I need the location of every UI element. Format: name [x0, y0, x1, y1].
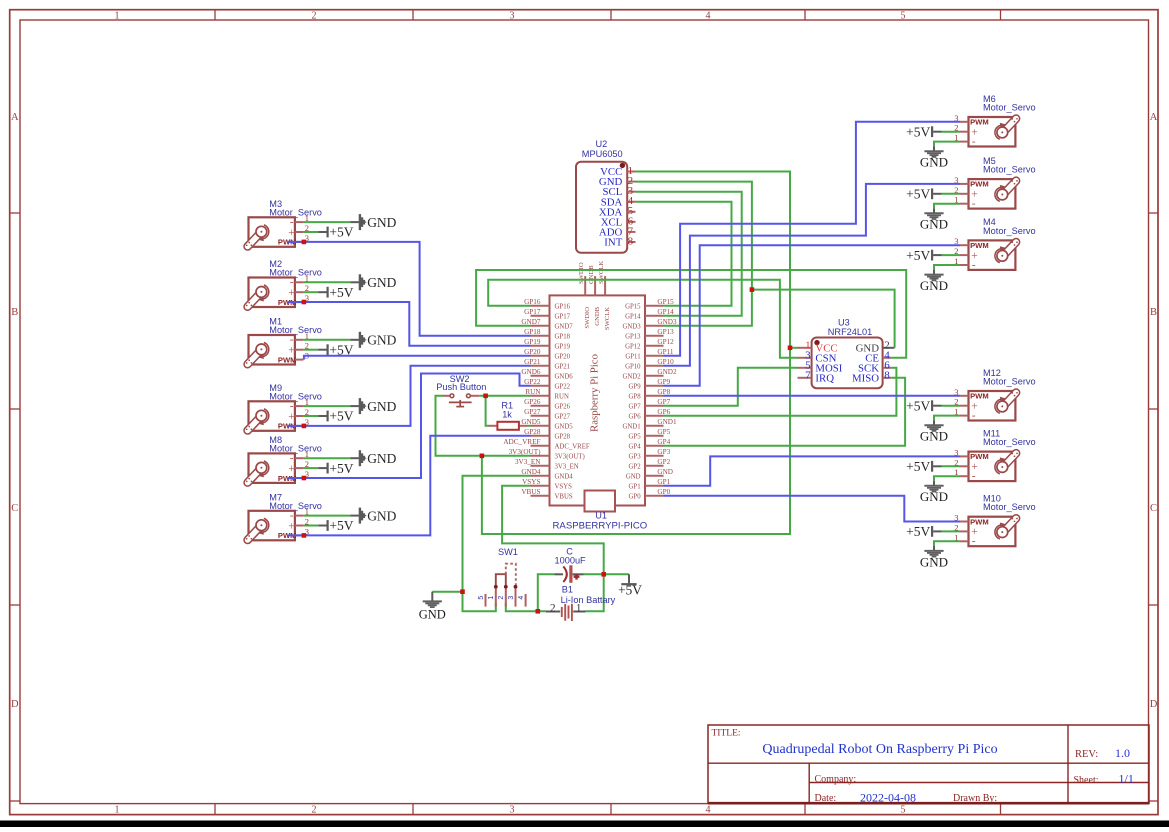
svg-text:TITLE:: TITLE:	[712, 729, 741, 739]
svg-text:GND: GND	[367, 508, 396, 523]
svg-text:+5V: +5V	[906, 248, 930, 263]
wire M8 pin1 to GND	[303, 457, 350, 459]
wire M10 PWM to GP0	[664, 496, 961, 522]
svg-text:VSYS: VSYS	[555, 484, 573, 491]
power +5V bottom	[618, 574, 642, 597]
svg-text:GND: GND	[920, 278, 948, 293]
svg-text:GND4: GND4	[555, 474, 574, 481]
svg-text:GND: GND	[419, 607, 446, 621]
wire M8 pin2 to +5V	[303, 467, 318, 469]
svg-text:Raspberry Pi Pico: Raspberry Pi Pico	[588, 354, 600, 432]
svg-text:GND: GND	[920, 429, 948, 444]
svg-text:2022-04-08: 2022-04-08	[860, 790, 916, 804]
svg-text:GP15: GP15	[625, 304, 641, 311]
svg-text:GP13: GP13	[657, 328, 674, 336]
wire M11 pin2 to +5V	[942, 465, 961, 467]
svg-text:GND: GND	[657, 468, 673, 476]
ground earth M4	[920, 270, 948, 293]
svg-text:2: 2	[312, 10, 317, 21]
svg-text:5: 5	[901, 10, 906, 21]
svg-text:Sheet:: Sheet:	[1074, 775, 1099, 786]
wire M3 PWM to GP18	[288, 242, 531, 336]
title block	[708, 725, 1149, 803]
wire SW2 to R1	[486, 396, 489, 426]
svg-text:-: -	[972, 410, 976, 422]
svg-text:ADC_VREF: ADC_VREF	[503, 438, 540, 446]
servo M12	[954, 387, 1018, 422]
svg-text:A: A	[11, 112, 19, 123]
wire M12 pin2 to +5V	[942, 405, 961, 407]
svg-text:Push Button: Push Button	[436, 382, 486, 392]
resistor R1 1k	[489, 422, 528, 430]
servo M10 label	[983, 494, 1036, 513]
svg-text:GP14: GP14	[625, 314, 641, 321]
svg-text:1: 1	[488, 596, 495, 600]
svg-text:1: 1	[115, 10, 120, 21]
svg-text:7: 7	[805, 370, 811, 382]
svg-text:PWM: PWM	[970, 452, 989, 461]
svg-text:A: A	[1150, 112, 1158, 123]
svg-text:PWM: PWM	[970, 241, 989, 250]
junction M8 pin3	[302, 476, 307, 481]
switch SW1 label	[498, 547, 518, 557]
wire M6 PWM to GP11	[664, 122, 961, 356]
servo M10	[954, 513, 1018, 548]
capacitor C 1000uF	[555, 565, 584, 583]
frame row labels	[11, 112, 1158, 710]
junction U3 VCC node	[788, 346, 793, 351]
svg-text:3: 3	[510, 804, 515, 815]
svg-text:GND: GND	[920, 554, 948, 569]
op-amp U1 RASPBERRYPI-PICO	[531, 276, 664, 511]
svg-text:GND6: GND6	[521, 368, 541, 376]
switch SW1	[478, 564, 526, 607]
svg-text:VBUS: VBUS	[521, 488, 540, 496]
svg-text:2: 2	[550, 602, 556, 614]
svg-text:PWM: PWM	[970, 392, 989, 401]
servo M8	[246, 449, 309, 483]
svg-text:VBUS: VBUS	[555, 494, 573, 501]
svg-text:GP26: GP26	[555, 404, 571, 411]
svg-text:+5V: +5V	[329, 409, 353, 424]
svg-text:GND: GND	[367, 215, 396, 230]
svg-text:GND: GND	[920, 155, 948, 170]
svg-text:GND7: GND7	[555, 324, 574, 331]
svg-text:Li-Ion Battary: Li-Ion Battary	[561, 595, 616, 605]
svg-text:GP17: GP17	[524, 308, 541, 316]
battery B1 Li-Ion	[546, 602, 586, 621]
svg-text:PWM: PWM	[970, 118, 989, 127]
svg-text:U1: U1	[595, 511, 607, 521]
svg-text:Date:: Date:	[815, 793, 837, 804]
servo M8 label	[269, 435, 322, 453]
svg-text:B1: B1	[562, 585, 573, 595]
svg-text:Motor_Servo: Motor_Servo	[983, 437, 1036, 447]
svg-text:1: 1	[576, 602, 582, 614]
svg-text:REV:: REV:	[1075, 749, 1098, 760]
svg-text:MISO: MISO	[852, 372, 879, 384]
svg-text:+5V: +5V	[906, 459, 930, 474]
svg-text:Motor_Servo: Motor_Servo	[983, 226, 1036, 236]
svg-text:GP16: GP16	[555, 304, 571, 311]
svg-text:GNDB: GNDB	[588, 265, 595, 284]
svg-text:Motor_Servo: Motor_Servo	[269, 501, 322, 511]
svg-text:-: -	[972, 536, 976, 548]
wire M7 pin1 to GND	[303, 515, 350, 517]
resistor R1 label	[501, 400, 513, 419]
wire capacitor to +5V junction	[584, 573, 604, 575]
svg-text:PWM: PWM	[278, 355, 297, 364]
junction battery minus node	[536, 609, 541, 614]
wire M6 pin2 to +5V	[942, 131, 961, 133]
servo M6 label	[983, 94, 1036, 113]
svg-text:GP7: GP7	[629, 404, 642, 411]
svg-text:Motor_Servo: Motor_Servo	[983, 502, 1036, 512]
op-amp U2 MPU6050 label	[582, 139, 623, 159]
svg-text:GP6: GP6	[629, 414, 642, 421]
bottom bar	[0, 821, 1169, 828]
ground earth M11	[920, 481, 948, 504]
servo M3	[246, 213, 309, 247]
ground GND flag M7	[350, 508, 396, 524]
power +5V M12	[906, 398, 941, 413]
servo M5	[954, 175, 1018, 210]
svg-text:1.0: 1.0	[1115, 746, 1130, 760]
power +5V M10	[906, 524, 941, 539]
op-amp U3 NRF24L01	[798, 338, 895, 389]
svg-text:PWM: PWM	[970, 517, 989, 526]
svg-text:Motor_Servo: Motor_Servo	[269, 268, 322, 278]
svg-text:GP0: GP0	[629, 494, 642, 501]
svg-text:ADC_VREF: ADC_VREF	[555, 444, 590, 451]
ground GND flag M9	[350, 398, 396, 414]
svg-text:GP17: GP17	[555, 314, 571, 321]
svg-text:5: 5	[901, 804, 906, 815]
wire GP6 to U3 SCK	[664, 368, 897, 416]
svg-text:GND: GND	[367, 399, 396, 414]
op-amp U3 NRF24L01 label	[828, 318, 872, 337]
power +5V M4	[906, 248, 941, 263]
svg-text:+5V: +5V	[906, 524, 930, 539]
ground GND flag M8	[350, 450, 396, 466]
servo M4	[954, 236, 1018, 271]
wire M2 pin2 to +5V	[303, 291, 318, 293]
servo M1 label	[269, 317, 322, 335]
wire M1 pin1 to GND	[303, 339, 350, 341]
ground earth M6	[920, 147, 948, 170]
svg-text:+5V: +5V	[906, 124, 930, 139]
svg-text:2: 2	[312, 804, 317, 815]
svg-text:-: -	[972, 198, 976, 210]
wire M4 pin1 to GND	[934, 265, 960, 270]
ground earth M10	[920, 546, 948, 569]
wire M5 pin2 to +5V	[942, 193, 961, 195]
capacitor C label	[555, 547, 587, 566]
servo M9	[246, 397, 309, 431]
ground earth M5	[920, 209, 948, 232]
op-amp U2 MPU6050	[576, 162, 636, 253]
svg-text:GP3: GP3	[657, 448, 670, 456]
svg-text:Motor_Servo: Motor_Servo	[983, 165, 1036, 175]
svg-text:3: 3	[508, 596, 515, 600]
svg-text:+5V: +5V	[329, 225, 353, 240]
svg-text:GP8: GP8	[629, 394, 642, 401]
power +5V M6	[906, 124, 941, 139]
svg-text:GND: GND	[367, 275, 396, 290]
wire M2 PWM to GP19	[288, 302, 531, 346]
wire M7 pin2 to +5V	[303, 525, 318, 527]
junction M3 pin3	[302, 240, 307, 245]
wire M9 PWM to GP21	[288, 366, 531, 426]
svg-text:GND2: GND2	[657, 368, 677, 376]
svg-text:GND1: GND1	[622, 424, 640, 431]
junction M9 pin3	[302, 424, 307, 429]
wire SW1 pin2 to battery minus	[506, 603, 546, 611]
wire M5 pin1 to GND	[934, 204, 960, 209]
svg-text:GND: GND	[920, 489, 948, 504]
svg-text:Motor_Servo: Motor_Servo	[269, 391, 322, 401]
svg-text:GP22: GP22	[555, 384, 571, 391]
wire M2 pin1 to GND	[303, 281, 350, 283]
servo M4 label	[983, 217, 1036, 236]
svg-text:3V3_EN: 3V3_EN	[555, 464, 579, 471]
svg-text:8: 8	[628, 235, 634, 247]
svg-text:Motor_Servo: Motor_Servo	[269, 325, 322, 335]
svg-text:GP21: GP21	[555, 364, 571, 371]
svg-text:1000uF: 1000uF	[555, 555, 587, 565]
svg-text:INT: INT	[604, 237, 622, 249]
power +5V M1	[318, 342, 354, 357]
svg-text:4: 4	[706, 10, 711, 21]
svg-text:C: C	[11, 503, 18, 514]
svg-text:GP5: GP5	[629, 434, 642, 441]
svg-text:GP12: GP12	[657, 338, 674, 346]
wire GP16 to U3 CSN	[488, 280, 797, 358]
wire M9 pin2 to +5V	[303, 415, 318, 417]
junction +5V node	[601, 572, 606, 577]
power +5V M3	[318, 225, 354, 240]
svg-text:Company:: Company:	[815, 774, 857, 785]
servo M1	[246, 331, 309, 365]
wire M6 pin1 to GND	[934, 142, 960, 147]
svg-text:GP20: GP20	[555, 354, 571, 361]
servo M11 label	[983, 428, 1036, 447]
svg-text:GP18: GP18	[555, 334, 571, 341]
svg-text:SWDIO: SWDIO	[584, 307, 591, 329]
svg-text:3V3(OUT): 3V3(OUT)	[555, 454, 585, 461]
svg-text:GP3: GP3	[629, 454, 642, 461]
svg-text:GP10: GP10	[625, 364, 641, 371]
junction GND node U2	[750, 287, 755, 292]
svg-text:-: -	[972, 471, 976, 483]
svg-text:SWCLK: SWCLK	[604, 307, 611, 330]
svg-text:+5V: +5V	[618, 583, 642, 598]
svg-text:Motor_Servo: Motor_Servo	[269, 443, 322, 453]
wire R1 to GND5	[527, 425, 531, 427]
wire U3 VCC link	[790, 347, 798, 349]
power +5V M5	[906, 187, 941, 202]
wire M1 pin2 to +5V	[303, 349, 318, 351]
svg-text:RUN: RUN	[555, 394, 569, 401]
svg-text:1k: 1k	[502, 410, 512, 420]
servo M6	[954, 113, 1018, 148]
junction GND node bottom	[460, 589, 465, 594]
wire SW2 to 3V3(OUT)	[436, 396, 531, 456]
wire VSYS to +5V net	[502, 486, 604, 612]
svg-text:GP19: GP19	[555, 344, 571, 351]
svg-text:GP11: GP11	[625, 354, 640, 361]
wire GND7 to U3 CE	[476, 270, 906, 358]
wire M12 pin1 to GND	[934, 416, 960, 421]
svg-text:5: 5	[478, 596, 485, 600]
servo M2 label	[269, 259, 322, 277]
svg-text:GP27: GP27	[555, 414, 571, 421]
svg-text:GP1: GP1	[629, 484, 641, 491]
wire M9 pin1 to GND	[303, 405, 350, 407]
svg-text:GND: GND	[920, 217, 948, 232]
svg-text:GP26: GP26	[524, 398, 541, 406]
wire M12 PWM to GP8	[664, 395, 961, 397]
svg-text:Motor_Servo: Motor_Servo	[983, 376, 1036, 386]
svg-text:4: 4	[706, 804, 711, 815]
wire U2 VCC to 3V3 net	[482, 172, 790, 535]
svg-text:D: D	[1150, 699, 1158, 710]
svg-text:3: 3	[510, 10, 515, 21]
net labels pico left	[503, 298, 541, 496]
wire M3 pin2 to +5V	[303, 231, 318, 233]
svg-text:GND6: GND6	[555, 374, 574, 381]
servo M11	[954, 447, 1018, 482]
svg-text:-: -	[972, 259, 976, 271]
svg-text:MPU6050: MPU6050	[582, 149, 623, 159]
switch SW2 label	[436, 374, 486, 392]
svg-text:GP2: GP2	[629, 464, 642, 471]
power +5V M2	[318, 285, 354, 300]
wire U2 SCL to GP14	[636, 192, 742, 316]
svg-text:1/1: 1/1	[1119, 772, 1134, 786]
svg-text:NRF24L01: NRF24L01	[828, 327, 872, 337]
servo M9 label	[269, 383, 322, 401]
svg-text:GP27: GP27	[524, 408, 541, 416]
svg-text:Motor_Servo: Motor_Servo	[269, 207, 322, 217]
svg-text:GNDB: GNDB	[594, 306, 601, 325]
ground GND flag M1	[350, 332, 396, 348]
wire M4 PWM to GP9	[664, 245, 961, 386]
svg-text:SW1: SW1	[498, 547, 518, 557]
svg-text:GP5: GP5	[657, 428, 670, 436]
wire +5V spur	[604, 573, 629, 575]
svg-text:GND1: GND1	[657, 418, 677, 426]
wire M5 PWM to GP10	[664, 184, 961, 366]
wire battery minus to capacitor	[538, 574, 555, 611]
svg-text:GP13: GP13	[625, 334, 641, 341]
op-amp U1 label	[553, 511, 648, 532]
svg-text:GP9: GP9	[629, 384, 642, 391]
svg-text:2: 2	[498, 596, 505, 600]
svg-text:-: -	[972, 136, 976, 148]
svg-text:Motor_Servo: Motor_Servo	[983, 102, 1036, 112]
svg-text:GND2: GND2	[622, 374, 641, 381]
frame column labels	[115, 10, 906, 815]
wire GP4 to U3 MISO	[664, 378, 906, 446]
junction M7 pin3	[302, 533, 307, 538]
svg-text:+5V: +5V	[906, 187, 930, 202]
svg-text:PWM: PWM	[970, 180, 989, 189]
svg-text:RASPBERRYPI-PICO: RASPBERRYPI-PICO	[553, 520, 648, 531]
power +5V M8	[318, 461, 354, 476]
wire M1 PWM to GP20	[304, 356, 531, 360]
wire M8 PWM to GP22	[288, 374, 531, 479]
wire GP7 to U3 MOSI	[664, 368, 798, 406]
svg-text:4: 4	[518, 596, 525, 600]
wire M11 PWM to GP1	[664, 456, 961, 485]
svg-text:+5V: +5V	[906, 398, 930, 413]
wire M4 pin2 to +5V	[942, 254, 961, 256]
servo M7 label	[269, 492, 322, 510]
switch SW2 Push Button	[443, 394, 479, 407]
servo M3 label	[269, 199, 322, 217]
svg-text:+5V: +5V	[329, 518, 353, 533]
svg-text:GP2: GP2	[657, 458, 670, 466]
net labels pico top SWD	[578, 261, 605, 284]
svg-text:GND: GND	[367, 451, 396, 466]
title block text	[712, 729, 1134, 805]
wire GND4 to GND net	[463, 476, 531, 612]
wire M11 pin1 to GND	[934, 476, 960, 481]
svg-text:B: B	[11, 307, 18, 318]
wire SW2 to RUN	[479, 395, 530, 397]
net labels pico right	[657, 298, 677, 496]
svg-text:3V3_EN: 3V3_EN	[515, 458, 541, 466]
svg-text:IRQ: IRQ	[815, 372, 834, 384]
svg-text:GP12: GP12	[625, 344, 641, 351]
svg-text:U2: U2	[596, 139, 608, 149]
wire M7 PWM to GP28	[288, 436, 531, 536]
servo M7	[246, 507, 309, 541]
battery B1 label	[561, 585, 616, 605]
svg-text:GND3: GND3	[622, 324, 641, 331]
svg-text:GP4: GP4	[629, 444, 642, 451]
wire M10 pin1 to GND	[934, 541, 960, 546]
ground earth M12	[920, 421, 948, 444]
svg-text:D: D	[11, 699, 19, 710]
svg-text:C: C	[1150, 503, 1157, 514]
wire GND3 net to U3 GND	[752, 290, 895, 348]
wire U2 GND to GND3	[636, 182, 752, 326]
power +5V M11	[906, 459, 941, 474]
power +5V M7	[318, 518, 354, 533]
svg-text:GND: GND	[367, 333, 396, 348]
svg-text:GND5: GND5	[555, 424, 574, 431]
servo M2	[246, 273, 309, 307]
svg-text:Drawn By:: Drawn By:	[953, 793, 997, 804]
wire U2 SDA to GP15	[636, 202, 732, 306]
junction 3V3 node	[480, 454, 485, 459]
power +5V M9	[318, 409, 354, 424]
junction M2 pin3	[302, 300, 307, 305]
svg-text:+5V: +5V	[329, 285, 353, 300]
wire M3 pin1 to GND	[303, 221, 350, 223]
svg-text:B: B	[1150, 307, 1157, 318]
svg-text:1: 1	[115, 804, 120, 815]
ground GND flag M3	[350, 214, 396, 230]
svg-text:+5V: +5V	[329, 461, 353, 476]
svg-text:GND: GND	[626, 474, 641, 481]
wire M10 pin2 to +5V	[942, 530, 961, 532]
servo M5 label	[983, 156, 1036, 175]
junction SW2-RUN node	[483, 394, 488, 399]
svg-text:Quadrupedal Robot On Raspberry: Quadrupedal Robot On Raspberry Pi Pico	[762, 742, 997, 757]
